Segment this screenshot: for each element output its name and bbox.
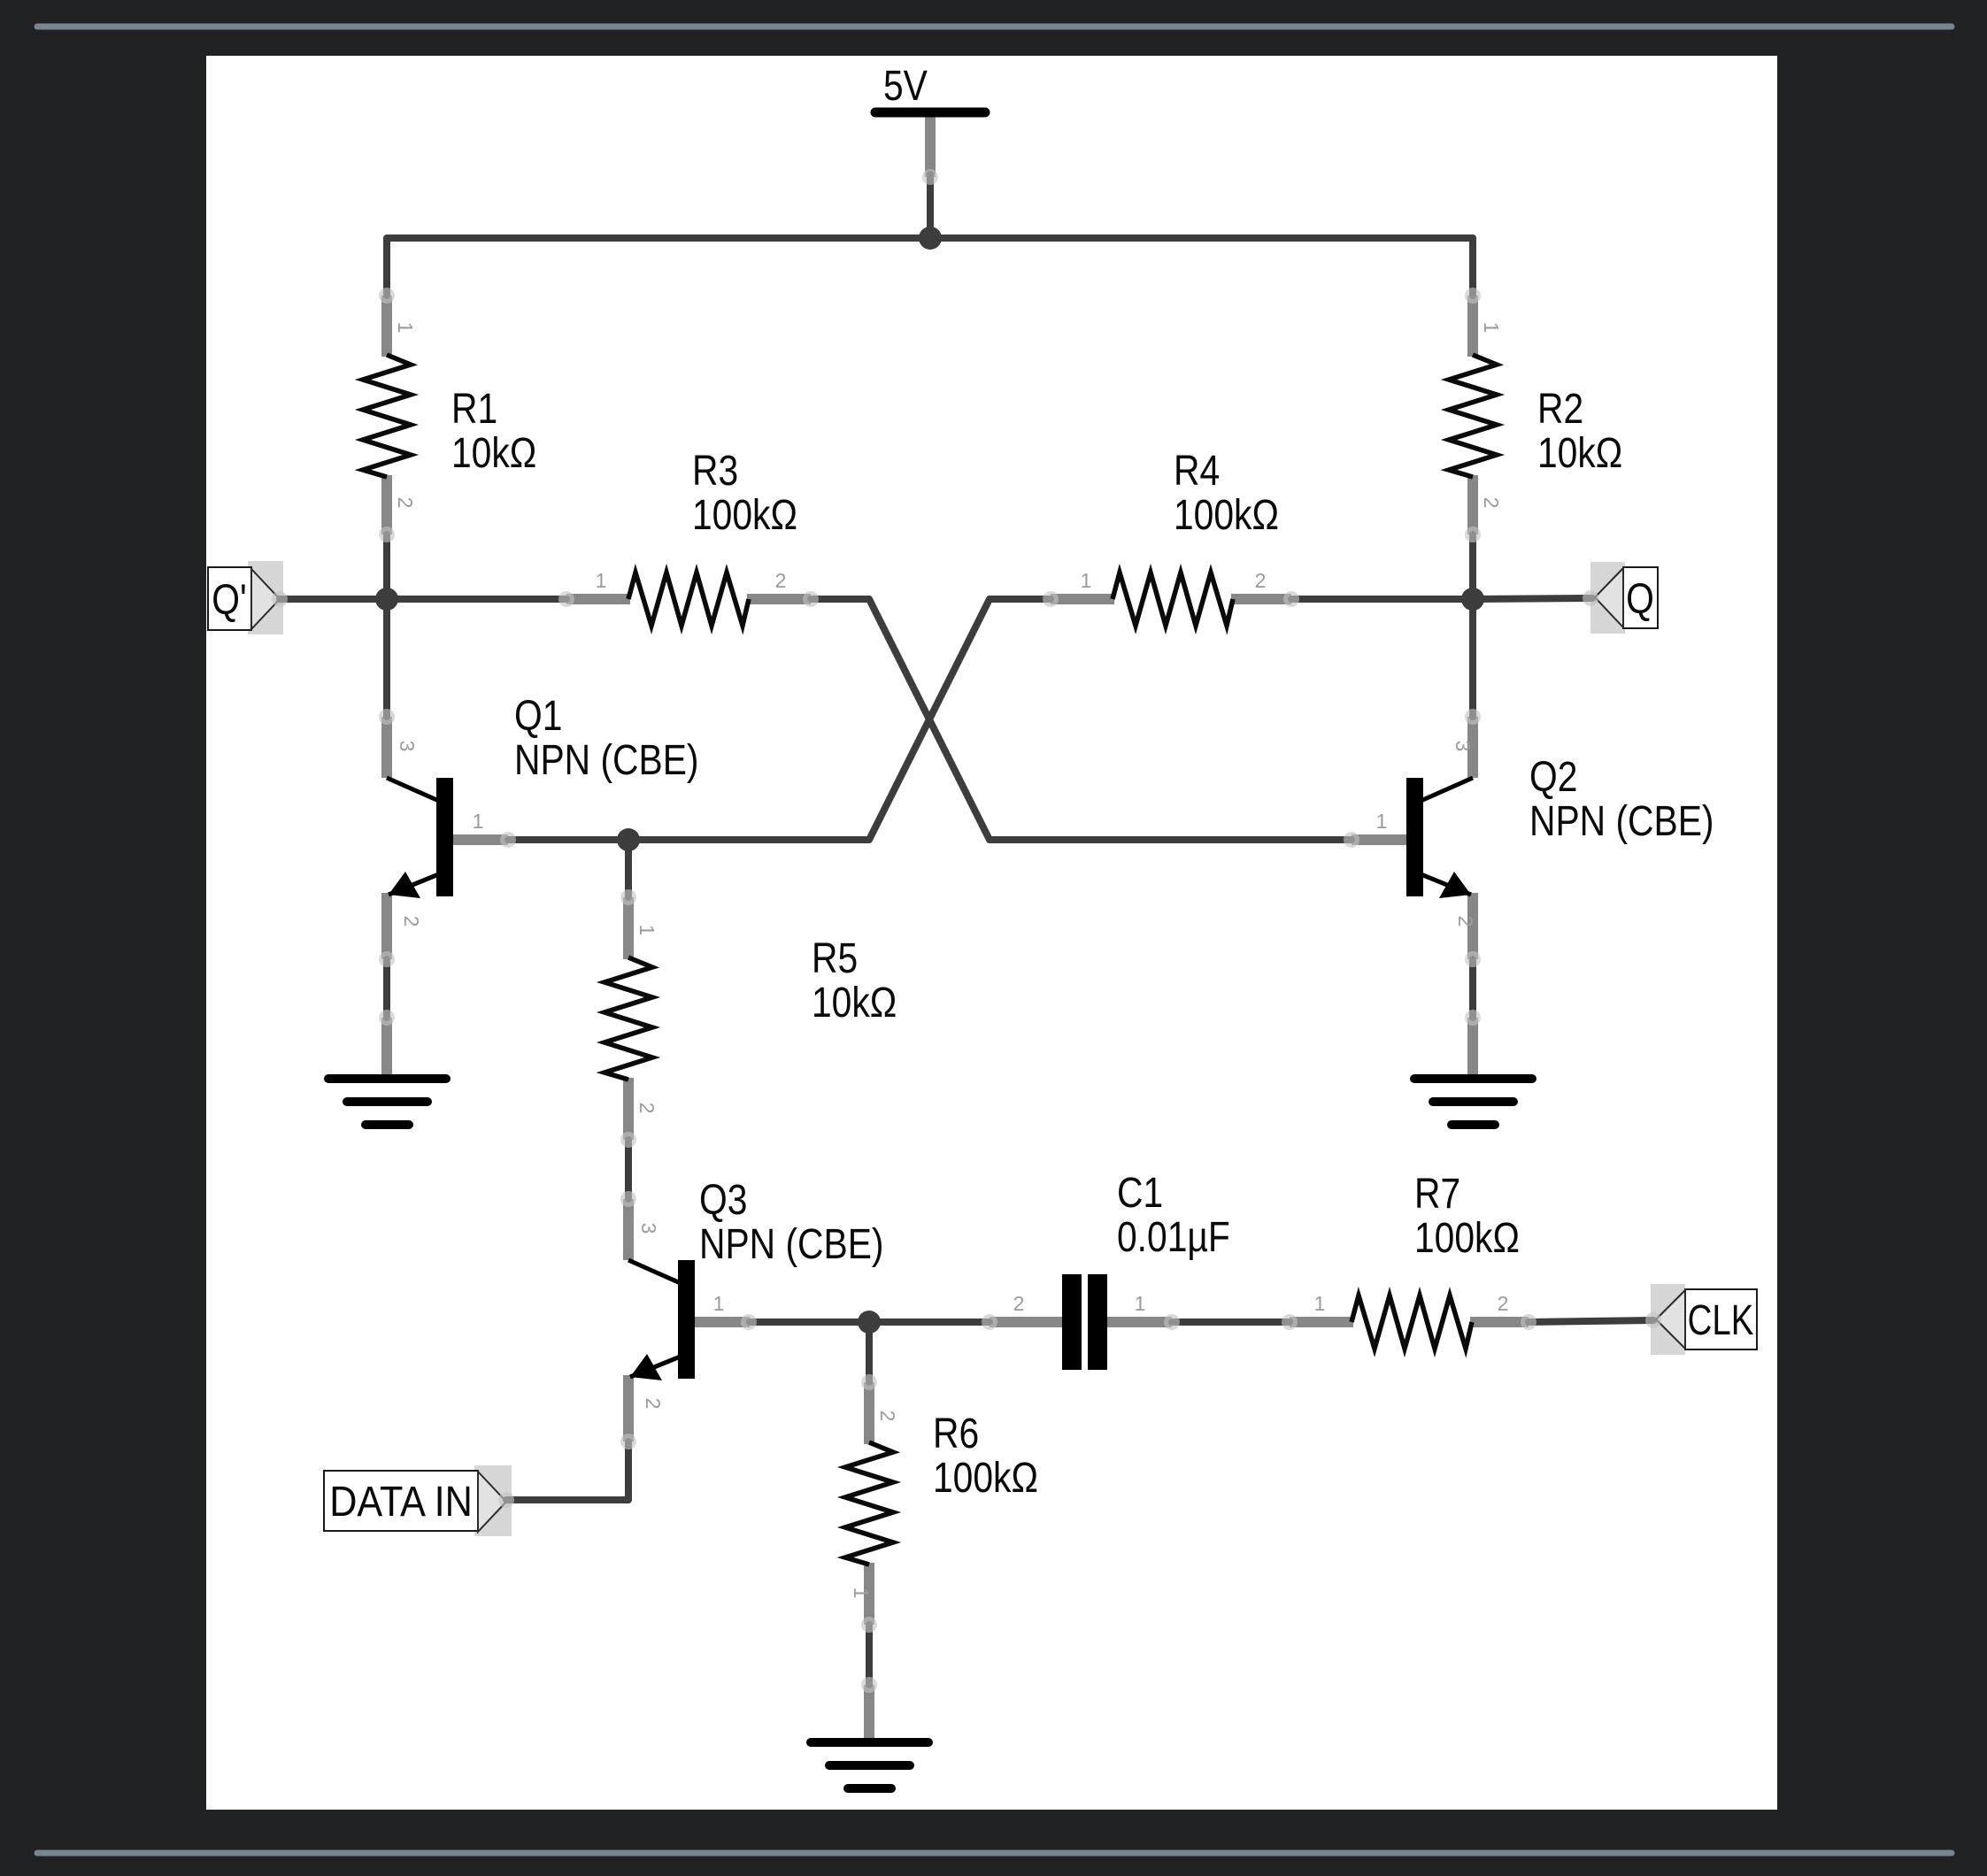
svg-text:5V: 5V [883,63,928,110]
svg-text:100kΩ: 100kΩ [1174,492,1279,539]
svg-text:R7: R7 [1414,1171,1460,1218]
svg-text:R4: R4 [1174,448,1220,495]
top decorative line [37,24,1952,30]
wire node Q' to Q1 collector [383,599,390,717]
port Q triangle [1595,568,1623,627]
svg-text:3: 3 [1452,741,1475,752]
svg-text:1: 1 [850,1588,873,1599]
resistor R1 pin 2 [381,475,392,534]
TEXT-LAYER [212,63,1753,1526]
svg-text:2: 2 [1255,569,1267,592]
junction node B3 [858,1311,881,1334]
ground 2 bar bottom [1452,1120,1495,1129]
svg-text:2: 2 [1480,497,1503,509]
svg-text:NPN (CBE): NPN (CBE) [1529,798,1714,845]
transistor Q1 collector stroke [387,778,441,802]
resistor R1 zigzag [363,355,411,477]
wire R4 pin 2 to node Q [1291,596,1473,603]
svg-text:2: 2 [775,569,787,592]
wire node B3 to C1 pin 2 [869,1319,990,1326]
port CLK box [1685,1289,1757,1349]
ground 2 pin [1467,1018,1478,1077]
transistor Q2 base pin [1352,834,1409,845]
ground 1 bar middle [347,1097,427,1106]
transistor Q2 emitter arrow [1439,872,1471,898]
svg-text:2: 2 [876,1411,899,1422]
svg-text:1: 1 [1314,1292,1326,1315]
ground 1 bar bottom [366,1120,409,1129]
resistor R4 pin 2 [1231,594,1291,604]
wire node B3 to R6 pin 2 [866,1322,873,1382]
svg-text:Q: Q [1626,576,1654,623]
svg-text:1: 1 [394,322,417,334]
svg-text:100kΩ: 100kΩ [1414,1215,1520,1262]
port CLK triangle [1656,1290,1685,1349]
wire R7 pin 2 to port CLK [1529,1320,1653,1322]
transistor Q1 emitter arrow [389,872,420,898]
transistor Q1 body bar [436,778,453,896]
svg-text:2: 2 [1498,1292,1509,1315]
svg-text:100kΩ: 100kΩ [692,492,797,539]
wire node Q to Q2 collector [1469,599,1476,717]
resistor R1 pin 1 [381,296,392,357]
svg-text:NPN (CBE): NPN (CBE) [699,1221,883,1268]
svg-text:CLK: CLK [1688,1297,1754,1344]
svg-text:1: 1 [1081,569,1092,592]
PIN-NUMBER-LAYER [394,322,1508,1599]
5V supply pin [925,115,936,177]
wire Q1 base to node B1 [508,836,628,843]
transistor Q3 emitter stroke [630,1356,682,1377]
wire R5 pin 2 to Q3 collector [625,1140,632,1199]
wire Q1 emitter to ground 1 [383,959,390,1018]
wire Q2 emitter to ground 2 [1469,959,1476,1018]
wire node Q to port Q [1473,598,1592,599]
svg-text:2: 2 [400,916,423,927]
port Q' shadow [248,561,283,634]
transistor Q1 emitter pin [381,893,392,959]
svg-text:DATA IN: DATA IN [329,1478,473,1526]
port DATA IN triangle [478,1472,506,1532]
resistor R5 pin 1 [623,897,634,959]
transistor Q3 base pin [692,1317,750,1327]
svg-text:R5: R5 [812,935,858,982]
wire node B1 to R5 pin 1 [625,840,632,897]
svg-text:2: 2 [1013,1292,1025,1315]
transistor Q1 emitter stroke [389,873,441,895]
capacitor C1 pin 2 [990,1317,1065,1327]
svg-text:R1: R1 [451,386,497,433]
resistor R6 pin 2 [864,1382,874,1444]
junction node B1 [617,828,640,851]
transistor Q3 emitter arrow [630,1354,662,1380]
resistor R7 zigzag [1352,1296,1472,1349]
svg-text:3: 3 [637,1223,660,1234]
DOTS-LAYER [272,169,1661,1693]
ground 2 bar middle [1433,1097,1513,1106]
junction node Q' [375,588,398,611]
transistor Q2 emitter pin [1467,893,1478,959]
svg-text:Q2: Q2 [1529,754,1577,801]
resistor R3 pin 2 [747,594,811,604]
svg-text:10kΩ: 10kΩ [812,980,897,1026]
transistor Q1 base pin [451,834,508,845]
wire R2 bottom to node Q [1469,534,1476,599]
port DATA IN box [324,1471,478,1531]
5V power symbol bar [875,108,985,118]
wire R6 pin 1 to ground 3 [866,1625,873,1685]
port CLK shadow [1651,1284,1685,1355]
wire port Q' to node Q' [280,596,387,603]
resistor R6 pin 1 [864,1563,874,1625]
svg-text:0.01µF: 0.01µF [1117,1214,1230,1261]
resistor R2 pin 1 [1467,296,1478,357]
resistor R7 pin 1 [1290,1317,1353,1327]
svg-text:10kΩ: 10kΩ [1537,430,1622,477]
svg-text:2: 2 [394,497,417,509]
resistor R4 pin 1 [1051,594,1114,604]
resistor R3 pin 1 [566,594,630,604]
svg-text:Q1: Q1 [514,693,562,740]
wire R3 pin 2 cross down to Q2 base [811,599,1352,840]
wire Q3 base to node B3 [750,1319,869,1326]
svg-text:R3: R3 [692,448,738,495]
junction node Q [1461,588,1484,611]
svg-text:Q': Q' [212,577,247,624]
transistor Q2 collector stroke [1419,778,1473,802]
resistor R2 zigzag [1449,355,1497,477]
wire node B1 cross up to R4 pin 1 [628,599,1051,840]
wire top rail right segment [930,238,1473,296]
transistor Q1 collector pin [381,717,392,778]
wire C1 pin 1 to R7 pin 1 [1172,1319,1290,1326]
transistor Q2 body bar [1406,778,1423,896]
ground 2 bar top [1414,1074,1532,1083]
wire R1 bottom to node Q' [383,534,390,599]
port Q' triangle [251,569,280,629]
svg-text:R2: R2 [1537,386,1583,433]
port Q shadow [1590,562,1625,634]
transistor Q3 emitter pin [623,1375,634,1442]
capacitor C1 right plate [1088,1274,1107,1370]
ground 1 pin [381,1018,392,1077]
svg-text:1: 1 [473,810,484,833]
WIRES-LAYER [280,174,1653,1685]
resistor R6 zigzag [845,1442,893,1565]
ground 3 bar middle [829,1761,910,1770]
white schematic canvas [206,56,1777,1810]
BODIES-LAYER [208,112,1757,1788]
svg-text:C1: C1 [1117,1170,1163,1217]
svg-text:1: 1 [1376,810,1388,833]
port DATA IN shadow [474,1465,512,1536]
wire top rail left segment [387,238,930,296]
resistor R5 zigzag [605,957,652,1080]
resistor R2 pin 2 [1467,475,1478,534]
ground 1 bar top [328,1074,446,1083]
wire 5V stub to top rail [927,174,934,238]
svg-text:R6: R6 [933,1411,979,1457]
capacitor C1 left plate [1062,1274,1082,1370]
resistor R5 pin 2 [623,1078,634,1140]
transistor Q2 emitter stroke [1419,873,1471,895]
svg-text:1: 1 [1480,322,1503,334]
ground 3 pin [864,1685,874,1741]
svg-text:NPN (CBE): NPN (CBE) [514,737,698,784]
svg-text:Q3: Q3 [699,1177,747,1224]
svg-text:1: 1 [1135,1292,1146,1315]
PINS-LAYER [387,115,1529,1741]
transistor Q3 collector pin [623,1199,634,1260]
svg-text:2: 2 [642,1398,665,1410]
svg-text:10kΩ: 10kΩ [451,430,536,477]
svg-text:100kΩ: 100kΩ [933,1455,1038,1502]
svg-text:2: 2 [1454,916,1477,927]
svg-text:1: 1 [635,925,658,936]
junction node 5V rail [919,227,942,250]
connector dots [272,169,1661,1693]
ground 3 bar bottom [848,1784,891,1793]
svg-text:1: 1 [713,1292,725,1315]
wire node Q' to R3 pin 1 [387,596,566,603]
resistor R4 zigzag [1113,573,1233,626]
bottom decorative line [37,1850,1952,1857]
svg-text:1: 1 [596,569,607,592]
wire Q3 emitter to port DATA IN [506,1442,628,1500]
svg-text:2: 2 [635,1103,658,1114]
port Q' box [208,567,251,630]
transistor Q2 collector pin [1467,717,1478,778]
resistor R7 pin 2 [1470,1317,1529,1327]
resistor R3 zigzag [628,573,749,626]
transistor Q3 collector stroke [628,1260,682,1284]
port Q box [1623,567,1658,628]
ground 3 bar top [811,1738,928,1747]
capacitor C1 pin 1 [1105,1317,1172,1327]
svg-text:3: 3 [396,741,419,752]
transistor Q3 body bar [678,1260,695,1379]
